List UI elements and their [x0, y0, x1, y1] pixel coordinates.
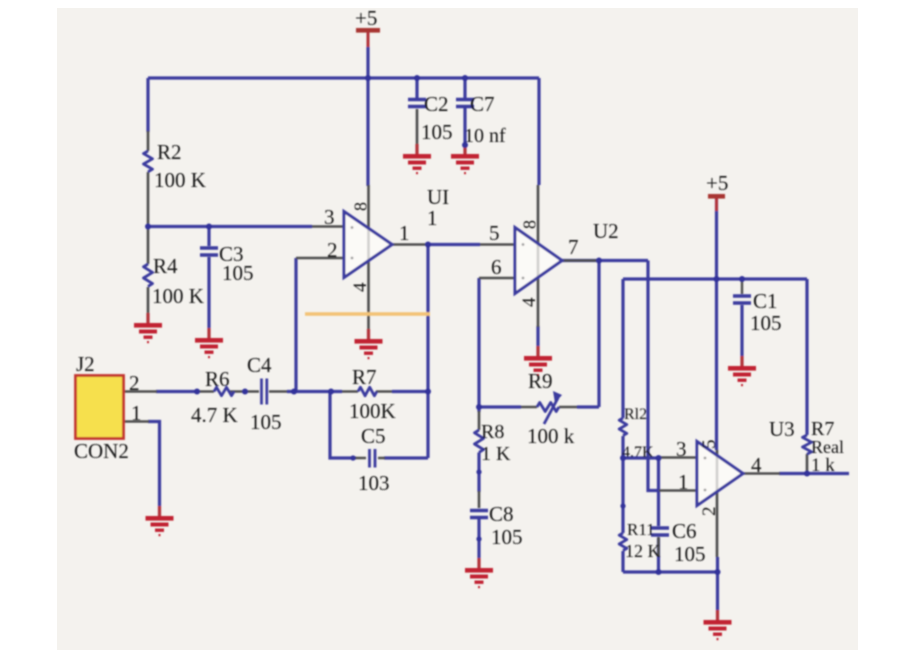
capacitor C4 plates — [262, 379, 267, 405]
R7 stubs — [342, 390, 392, 393]
wire U1 out to U2 pin5 — [428, 243, 480, 246]
U2 pin 5 stub — [480, 243, 515, 246]
capacitor C5 plates — [370, 449, 376, 468]
svg-text:103: 103 — [358, 471, 390, 495]
svg-text:12 K: 12 K — [625, 541, 661, 561]
U3 pin 5 / pin 2 line — [716, 450, 719, 557]
U2 pin 8 / pin 4 line — [537, 185, 540, 327]
junction U2 out — [596, 258, 602, 264]
svg-text:C6: C6 — [672, 519, 697, 543]
wire R11 branch — [621, 458, 624, 572]
resistor R9 body — [537, 403, 559, 412]
svg-text:105: 105 — [421, 120, 453, 144]
op-amp U2 — [515, 228, 562, 294]
svg-text:105: 105 — [250, 410, 282, 434]
junction C6 bottom — [656, 569, 662, 575]
ground bottom right U3 pin 2 — [704, 610, 732, 640]
svg-text:CON2: CON2 — [74, 439, 129, 463]
svg-text:1: 1 — [131, 401, 142, 425]
wire C6 branch — [657, 458, 660, 572]
capacitor C3 lower stub — [207, 257, 210, 328]
svg-text:4: 4 — [751, 453, 762, 477]
resistor R6 body — [214, 387, 234, 395]
wire top rail +5 net — [148, 76, 539, 79]
wire C5 branch — [330, 392, 356, 459]
ground below C8 — [465, 558, 493, 588]
resistor R7 body — [358, 387, 377, 396]
junction J2 row b — [242, 389, 248, 395]
R2 stubs — [147, 131, 150, 226]
capacitor C6 plates — [651, 528, 669, 535]
svg-text:+5: +5 — [706, 171, 728, 195]
wire U3 out — [779, 472, 849, 475]
resistor R8 body — [475, 430, 484, 452]
ground below C1 — [728, 356, 756, 386]
svg-text:R8: R8 — [481, 421, 504, 443]
svg-text:1 K: 1 K — [481, 443, 511, 465]
resistor R11 body — [619, 533, 627, 551]
svg-text:100 K: 100 K — [152, 284, 204, 308]
junction rail/+5 — [365, 75, 371, 81]
wire U2 pin6 drop — [477, 278, 480, 407]
R7real lower stub — [806, 454, 809, 474]
svg-text:J2: J2 — [76, 352, 95, 376]
junction U3 out / R7real — [804, 471, 810, 477]
U2 input marks — [522, 243, 525, 246]
capacitor C7 plates — [456, 100, 474, 107]
svg-text:C4: C4 — [247, 353, 272, 377]
wire C5 right to feedback — [384, 456, 428, 459]
capacitor C1 lower stub — [740, 305, 743, 356]
svg-text:105: 105 — [674, 542, 706, 566]
wire feedback drop U1out — [426, 245, 429, 459]
svg-text:1: 1 — [399, 221, 410, 245]
U1 pin 2 stub — [296, 257, 344, 260]
svg-text:105: 105 — [222, 261, 254, 285]
svg-text:5: 5 — [489, 221, 500, 245]
capacitor C7 lower stub — [463, 108, 466, 144]
op-amp U1 — [344, 212, 392, 278]
junction C6 top — [656, 455, 662, 461]
svg-text:+5: +5 — [355, 6, 377, 30]
junction pin2 drop — [291, 389, 297, 395]
U1 pin 8 / pin 4 line — [367, 185, 370, 329]
wire J2 pin1 drop — [148, 422, 160, 507]
svg-text:R7: R7 — [352, 365, 377, 389]
junction bottom rail right — [715, 569, 721, 575]
svg-text:3: 3 — [324, 205, 335, 229]
wire U2 out drop to R9 — [597, 261, 600, 408]
U1 pin 1 out stub — [391, 243, 428, 246]
junction feedback/R7 — [425, 389, 431, 395]
capacitor C7 upper stub — [463, 78, 466, 98]
svg-text:1: 1 — [678, 470, 689, 494]
junction U1 out — [425, 242, 431, 248]
capacitor C3 plates — [200, 248, 218, 255]
R6 stubs — [198, 390, 245, 393]
J2 pin 1 stub — [124, 420, 149, 423]
svg-text:105: 105 — [491, 525, 523, 549]
capacitor C1 plates — [733, 296, 751, 303]
resistor R4 body — [144, 264, 153, 286]
svg-text:8: 8 — [351, 202, 371, 211]
svg-text:C8: C8 — [489, 502, 514, 526]
wire U2 out right — [562, 259, 648, 262]
U1 pin 3 stub — [312, 225, 344, 228]
wire U2 pin4 lower — [536, 326, 539, 346]
C2 lower stub — [416, 109, 419, 144]
junction J2 row a — [194, 389, 200, 395]
wire R7real branch — [805, 279, 808, 435]
junction C7 stub — [462, 142, 468, 148]
svg-text:4.7 K: 4.7 K — [191, 403, 238, 427]
orange highlight line — [305, 312, 430, 316]
svg-text:R11: R11 — [627, 520, 655, 539]
R9 stubs — [521, 406, 577, 409]
wire J2 pin2 to R6 — [156, 390, 198, 393]
wire R7 right to feedback — [392, 390, 428, 393]
wire pin3 wire — [623, 456, 660, 459]
U3 pin 4 out stub — [742, 472, 780, 475]
capacitor C2 plates — [408, 100, 426, 107]
U3 pin 1 stub — [659, 489, 697, 492]
svg-text:100 K: 100 K — [154, 168, 206, 192]
capacitor C8 lower stub — [477, 519, 480, 558]
svg-text:C7: C7 — [470, 92, 495, 116]
svg-text:R4: R4 — [153, 254, 178, 278]
wire mid rail right — [623, 277, 807, 280]
junction node/R2 — [145, 224, 151, 230]
capacitor C8 plates — [470, 511, 488, 518]
op-amp U3 — [697, 442, 743, 506]
svg-text:10 nf: 10 nf — [464, 125, 506, 147]
U3 pin 3 stub — [660, 456, 697, 459]
ground below U2 pin 4 — [524, 346, 552, 376]
svg-text:C5: C5 — [361, 424, 386, 448]
power +5 right — [706, 171, 728, 211]
junction R7/C5 left — [328, 389, 334, 395]
C4 stubs — [245, 390, 287, 393]
svg-text:6: 6 — [491, 255, 502, 279]
C5 stubs — [355, 457, 385, 460]
wire +5 stub to rail — [366, 47, 369, 78]
C8 upper gray stub — [478, 491, 481, 508]
svg-text:5: 5 — [699, 440, 720, 450]
svg-text:2: 2 — [699, 507, 720, 517]
svg-text:C1: C1 — [753, 289, 778, 313]
ground below C3 — [195, 328, 223, 358]
power +5 top — [355, 6, 380, 47]
wire C4 to pin2 node — [287, 390, 342, 393]
capacitor C1 upper stub — [741, 279, 743, 294]
wire rail right drop to U2 pin 8 — [537, 78, 540, 185]
svg-text:100K: 100K — [349, 399, 396, 423]
capacitor C3 upper stub — [207, 226, 210, 246]
wire U2 out to U3 pin1 — [648, 261, 659, 491]
ground below J2 pin 1 — [146, 506, 174, 536]
junction +5/mid rail — [714, 276, 720, 282]
svg-text:100 k: 100 k — [527, 424, 575, 448]
junction C5 pin — [350, 455, 355, 460]
junction R11 pin — [620, 503, 625, 508]
wire R12 branch — [621, 279, 624, 458]
svg-text:1: 1 — [427, 206, 438, 230]
J2 pin 2 stub — [124, 390, 157, 393]
R4 stubs — [147, 227, 150, 313]
connector J2 — [76, 376, 124, 439]
svg-text:4.7K: 4.7K — [622, 444, 654, 461]
wire +5 right drop to U3 pin5 — [715, 197, 718, 450]
svg-text:U2: U2 — [593, 219, 619, 243]
svg-text:Rl2: Rl2 — [624, 406, 647, 423]
junction C1 top — [739, 276, 745, 282]
svg-text:1 k: 1 k — [811, 455, 835, 476]
C6 lower stub — [657, 537, 660, 557]
svg-text:2: 2 — [327, 238, 338, 262]
svg-text:R6: R6 — [205, 367, 230, 391]
resistor R7real body — [803, 435, 812, 454]
svg-text:7: 7 — [568, 235, 579, 259]
svg-text:2: 2 — [129, 371, 140, 395]
junction node/C3 — [206, 224, 212, 230]
junction rail/C2 — [414, 75, 420, 81]
svg-text:105: 105 — [750, 311, 782, 335]
U2 pin 7 out stub — [561, 259, 599, 262]
wire U1 pin2 drop — [294, 258, 297, 392]
svg-text:Real: Real — [811, 437, 844, 457]
wire rail to U1 pin 8 — [366, 78, 369, 186]
wire node row — [148, 225, 312, 228]
resistor R9 wiper arrow — [544, 398, 558, 424]
R8 upper stub — [478, 411, 481, 430]
wire bottom rail — [623, 570, 718, 573]
svg-text:4: 4 — [519, 297, 540, 307]
junction R12 bottom — [620, 455, 626, 461]
U2 pin 6 stub — [479, 277, 515, 280]
svg-text:3: 3 — [676, 437, 687, 461]
resistor R12 body — [619, 418, 627, 436]
svg-text:R9: R9 — [528, 369, 553, 393]
U1 input marks — [351, 226, 354, 229]
svg-text:C2: C2 — [424, 92, 449, 116]
svg-text:U3: U3 — [769, 417, 795, 441]
junction R8 top — [476, 404, 482, 410]
ground below C2 — [403, 144, 431, 174]
capacitor C2 upper stub — [415, 78, 418, 98]
ground below C7 — [451, 144, 479, 174]
svg-text:4: 4 — [350, 282, 371, 292]
junction R8 bottom pin — [476, 469, 481, 474]
junction C8 bottom pin — [476, 536, 481, 541]
svg-text:8: 8 — [520, 220, 540, 229]
wire rail left drop to R2 — [146, 78, 149, 132]
wire ground drop bottom right — [716, 557, 719, 610]
ground below U1 pin 4 — [355, 329, 383, 359]
junction rail/C7 — [462, 75, 468, 81]
wire R9 row — [479, 405, 599, 408]
ground below R4 — [134, 313, 162, 343]
resistor R2 body — [144, 151, 153, 172]
U3 input marks — [704, 457, 707, 460]
svg-text:R2: R2 — [157, 140, 182, 164]
wire R8 to C8 — [477, 407, 480, 492]
